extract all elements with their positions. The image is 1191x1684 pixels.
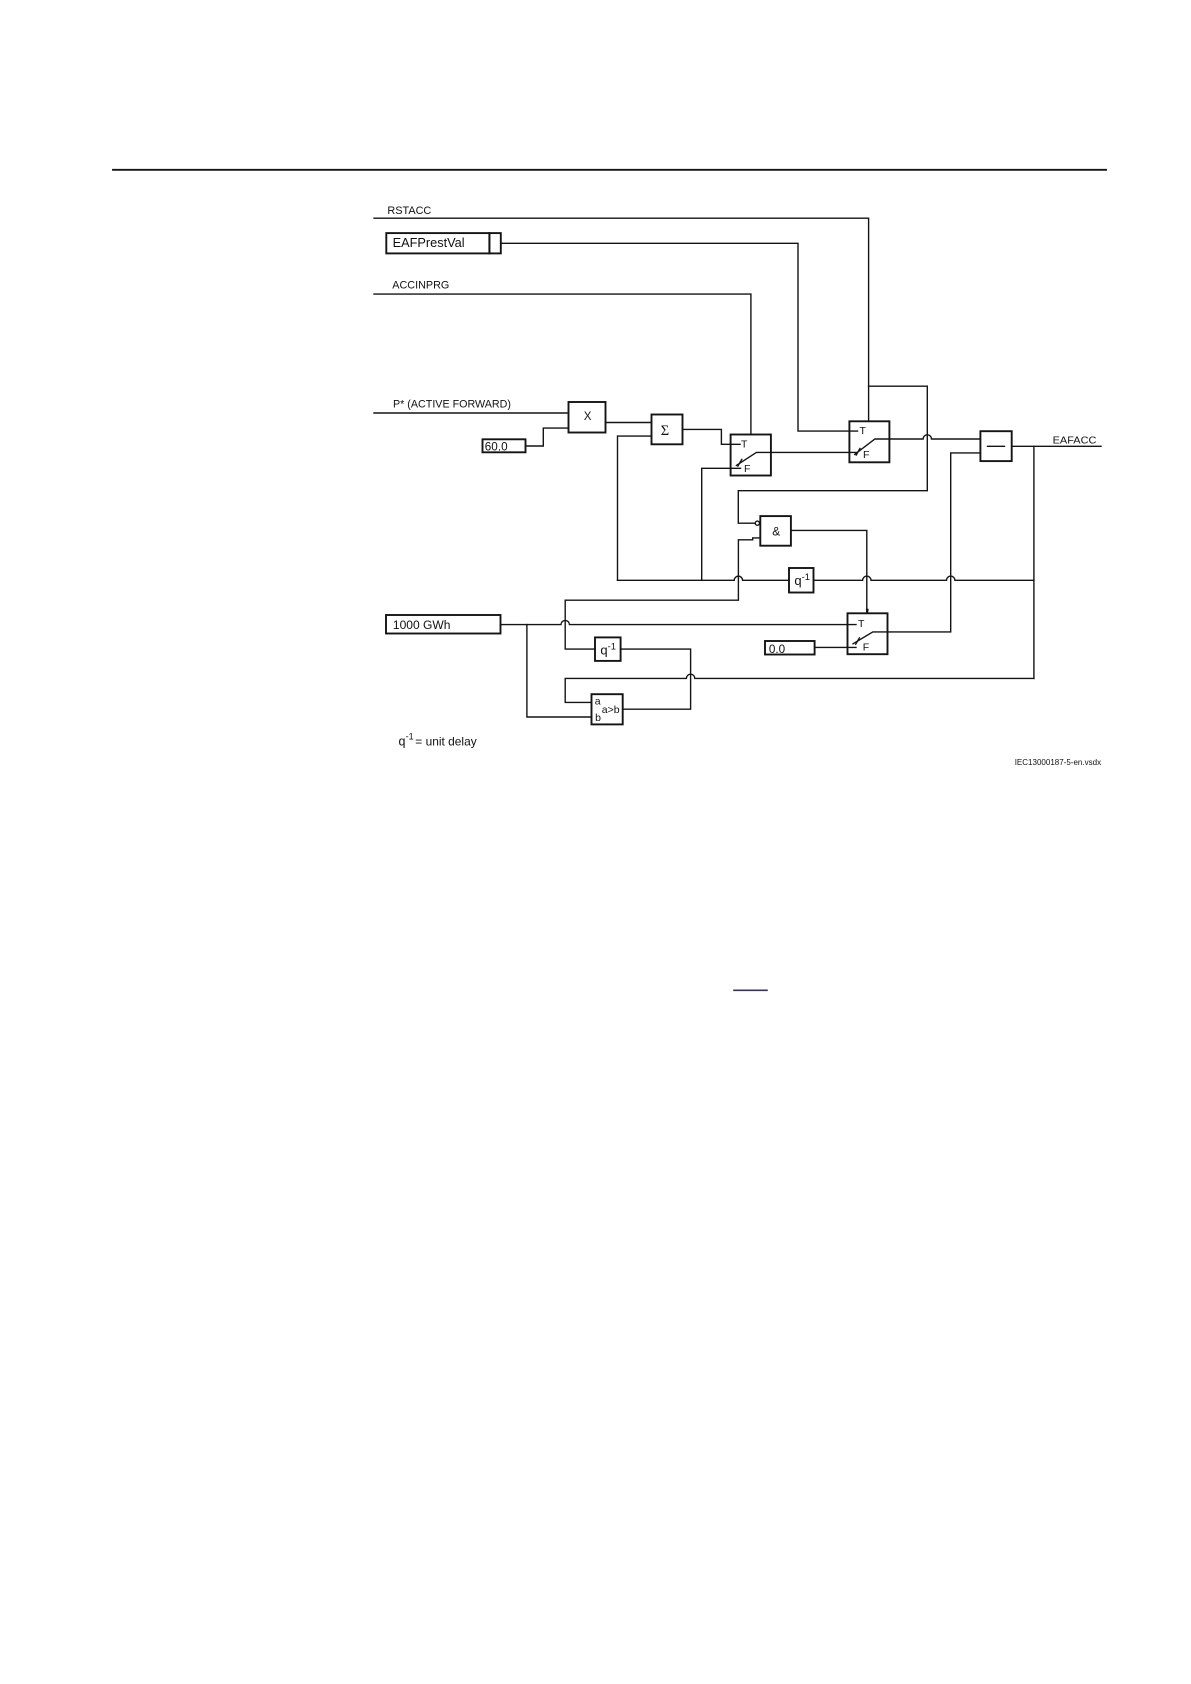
- arrowhead at SW3 control: [866, 609, 869, 614]
- delay Q2 box: [595, 637, 621, 661]
- value box 60.0: [483, 439, 526, 452]
- wire EAFACC output: [1012, 445, 1101, 447]
- wire P* input to multiplier: [374, 412, 569, 414]
- svg-text:Σ: Σ: [661, 423, 669, 439]
- wire AND lower input from delay Q2: [565, 538, 760, 649]
- svg-text:T: T: [860, 425, 867, 437]
- wire 0.0 to SW3 F input: [815, 646, 856, 648]
- wire feedback bottom run to comparator a input (hop at 690): [565, 674, 1034, 702]
- wire AND output to SW3 control: [791, 530, 867, 613]
- svg-text:F: F: [863, 642, 869, 654]
- input box EAFPrestVal: [386, 233, 489, 253]
- svg-text:60.0: 60.0: [485, 439, 508, 453]
- wire feedback line into Q1 (hops at 738,867,951): [618, 576, 1034, 580]
- wire comparator output to delay Q2 input: [621, 649, 691, 709]
- multiplier X box: [569, 402, 606, 433]
- svg-text:T: T: [741, 439, 748, 451]
- wire delayed feedback to summator lower input: [618, 436, 652, 580]
- wire EAFPrestVal to SW2 T input: [501, 243, 858, 431]
- switch SW1 tick: [738, 459, 742, 466]
- svg-text:a: a: [595, 696, 601, 708]
- wire ACCINPRG to SW1 control: [374, 294, 751, 434]
- svg-text:= unit delay: = unit delay: [415, 735, 476, 749]
- svg-text:EAFACC: EAFACC: [1053, 434, 1097, 446]
- wire 1000 GWh to SW3 T input (hop at 565): [501, 620, 856, 624]
- svg-text:ACCINPRG: ACCINPRG: [392, 279, 449, 291]
- svg-text:-1: -1: [608, 641, 616, 652]
- wire 1000 GWh branch to comparator b input: [527, 625, 592, 717]
- switch SW2 box: [849, 421, 889, 462]
- svg-text:1000 GWh: 1000 GWh: [393, 618, 451, 632]
- switch SW3 arm: [853, 632, 888, 644]
- subtractor dash symbol: [988, 445, 1005, 447]
- svg-text:b: b: [595, 712, 601, 724]
- svg-text:q: q: [794, 573, 801, 588]
- wire 60.0 to multiplier: [526, 428, 569, 446]
- value box 0.0: [765, 641, 815, 655]
- delay Q1 box: [789, 568, 814, 593]
- svg-text:q: q: [600, 643, 607, 658]
- svg-text:IEC13000187-5-en.vsdx: IEC13000187-5-en.vsdx: [1015, 758, 1101, 767]
- subtractor box: [980, 431, 1011, 461]
- input box EAFPrestVal connector stub box: [489, 233, 500, 253]
- input box 1000 GWh: [386, 615, 501, 634]
- comparator a>b box: [592, 694, 623, 724]
- svg-text:&: &: [772, 524, 780, 538]
- svg-text:T: T: [858, 618, 865, 630]
- wire EAFACC feedback tap down: [1033, 446, 1035, 678]
- svg-text:F: F: [863, 449, 869, 461]
- wire multiplier to summator: [606, 422, 652, 424]
- svg-text:-1: -1: [406, 732, 414, 742]
- svg-text:EAFPrestVal: EAFPrestVal: [393, 236, 465, 250]
- switch SW1 box: [731, 435, 771, 476]
- wire SW2 output to subtractor (hop over x=927): [889, 435, 980, 439]
- switch SW3 box: [848, 613, 888, 654]
- svg-text:a>b: a>b: [602, 704, 620, 716]
- switch SW2 arm: [855, 439, 890, 454]
- wire SW3 output up to subtractor lower input: [888, 453, 981, 632]
- svg-text:0.0: 0.0: [769, 642, 786, 656]
- svg-text:q: q: [399, 735, 406, 749]
- wire SW1 F input from delay line: [702, 468, 741, 580]
- switch SW2 tick: [856, 448, 860, 455]
- switch SW1 arm: [736, 452, 771, 465]
- svg-text:-1: -1: [802, 572, 810, 583]
- summator box: [652, 415, 683, 445]
- svg-text:F: F: [744, 463, 750, 475]
- gate AND box: [760, 516, 791, 546]
- svg-text:RSTACC: RSTACC: [387, 205, 431, 217]
- svg-text:P* (ACTIVE FORWARD): P* (ACTIVE FORWARD): [393, 398, 511, 410]
- switch SW3 tick: [856, 638, 860, 644]
- svg-text:X: X: [584, 411, 592, 423]
- inversion bubble at AND input: [755, 521, 759, 525]
- wire SW1 output to SW2 F input: [771, 451, 857, 453]
- header rule: [113, 169, 1106, 171]
- wire RSTACC to SW2 control: [374, 218, 869, 421]
- wire summator output to SW1 T input: [683, 429, 741, 444]
- hyperlink underline mark: [734, 989, 767, 991]
- wire RSTACC branch to AND gate inverted input: [738, 386, 927, 523]
